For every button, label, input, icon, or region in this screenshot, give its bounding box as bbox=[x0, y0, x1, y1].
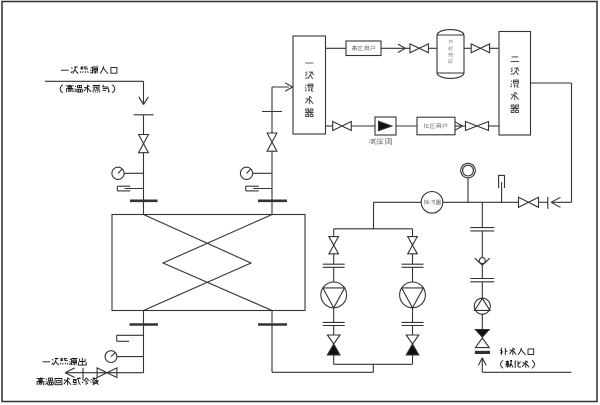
valve V1: primary inlet shut-off valve bbox=[139, 135, 149, 144]
pipe: primary outlet drop bbox=[143, 311, 145, 373]
heat exchanger HX secondary-pass diagonal bbox=[163, 215, 272, 311]
pipe: discharge header jog down bbox=[372, 364, 374, 372]
flange: heat exchanger primary inlet nozzle bbox=[130, 200, 158, 203]
pipe: PRV to low-zone users bbox=[396, 125, 417, 127]
label: 二级混水器 vertical text bbox=[511, 57, 520, 113]
label: （高温水蒸气） (high-temperature steam) bbox=[60, 85, 115, 93]
valve V7: low-zone return valve bbox=[466, 122, 478, 131]
pipe: primary inlet drop with flow arrow bbox=[143, 81, 145, 104]
ball check valve BC1 bbox=[475, 258, 483, 265]
pipe: drop to pump P2 inlet valve bbox=[412, 229, 414, 237]
pipe: primary outlet horizontal run with flow arrow bbox=[66, 372, 144, 374]
valve V9: pump P1 suction valve bbox=[329, 237, 339, 246]
label: 一次热源入口 (primary heat source inlet) bbox=[61, 66, 117, 74]
pipe: secondary supply riser bbox=[271, 151, 273, 214]
flange pair: pump P2 discharge bbox=[402, 321, 424, 323]
pipe: pump P2 discharge bbox=[412, 308, 414, 323]
pipe: check valve to discharge header bbox=[412, 355, 414, 364]
pipe: pump P1 discharge bbox=[333, 308, 335, 323]
tick: battery-limit mark on outlet line bbox=[82, 368, 84, 379]
flange: heat exchanger secondary inlet nozzle bbox=[258, 323, 287, 326]
pipe: seat bar to valve V8 bbox=[539, 201, 548, 203]
flange: primary inlet bbox=[134, 114, 154, 116]
pipe: mixer2 outlet to right edge bbox=[531, 82, 572, 84]
pipe: right-side downcomer bbox=[571, 83, 573, 202]
pipe: inlet flange to valve V1 bbox=[143, 115, 145, 135]
block: 高区用户 (high zone users) bbox=[346, 41, 381, 56]
vent/breather pipe on suction main bbox=[499, 175, 505, 188]
check valve CV1 seat bar bbox=[547, 197, 549, 209]
thermometer pocket T3 bbox=[246, 185, 259, 187]
valve V10: pump P2 suction valve bbox=[408, 237, 418, 246]
pipe: valve V1 down to heat exchanger bbox=[143, 153, 145, 215]
pump P3: make-up water pump bbox=[474, 298, 490, 314]
valve V8: suction main valve bbox=[519, 197, 529, 207]
flange pair: pump P1 discharge bbox=[323, 321, 345, 323]
pipe: mixer1 to valve V6 bbox=[326, 125, 333, 127]
label: 减压阀 (pressure reducing valve) bbox=[369, 138, 391, 145]
heat exchanger HX body bbox=[112, 215, 305, 311]
flange pair: make-up lower bbox=[470, 278, 494, 280]
vessel U3: 二级混水器 (second-stage mixing vessel) bbox=[499, 32, 531, 136]
pipe: primary inlet horizontal run bbox=[45, 80, 144, 82]
pipe: valve V8 to strainer bbox=[443, 201, 519, 203]
pipe: valve V9 to suction flange bbox=[333, 254, 335, 264]
pipe: heat exchanger secondary return riser bbox=[271, 311, 273, 373]
valve V5: surge vessel outlet valve bbox=[471, 44, 480, 53]
pump P2: circulating pump bbox=[400, 282, 426, 308]
pipe: make-up branch from suction main bbox=[481, 202, 483, 227]
pipe: valve V5 into mixer2 bbox=[490, 47, 499, 49]
valve V4: pressure vessel inlet valve bbox=[410, 44, 419, 53]
pipe: strainer to pump header corner bbox=[374, 201, 422, 203]
flange pair: make-up upper bbox=[470, 227, 494, 229]
thermometer pocket T2 bbox=[117, 334, 144, 336]
check valve CV3: pump P2 discharge check bbox=[406, 335, 419, 344]
check valve CV2: pump P1 discharge check bbox=[327, 335, 340, 344]
pipe: suction main with flow arrow bbox=[552, 201, 572, 203]
pipe: return run to heat exchanger secondary inlet bbox=[272, 371, 373, 373]
label: 一级混水器 vertical text bbox=[305, 63, 314, 117]
flange: heat exchanger secondary outlet nozzle bbox=[258, 200, 287, 203]
pipe: pump discharge header bbox=[334, 363, 413, 365]
pipe: make-up inlet with up arrow bbox=[481, 358, 483, 372]
pipe: make-up pump outlet bbox=[481, 314, 483, 329]
pipe: valve V10 to suction flange bbox=[412, 254, 414, 264]
label: 一次热源出 (primary heat source out) bbox=[43, 358, 87, 366]
valve V6: reducing line inlet valve bbox=[333, 122, 342, 131]
pressure gauge PG2 bbox=[105, 351, 117, 363]
pipe: drop to pump P1 inlet valve bbox=[333, 229, 335, 237]
pipe: users to valve V7 with flow arrow bbox=[455, 125, 466, 127]
pipe: high-zone users to valve V4 with flow arrow bbox=[381, 47, 410, 49]
pump P1: circulating pump bbox=[321, 282, 347, 308]
label: 节能稳压器 tiny vertical text in surge tank bbox=[448, 40, 453, 64]
pipe: valve V6 to pressure reducing valve bbox=[351, 125, 375, 127]
heat exchanger HX primary-pass diagonal bbox=[144, 215, 252, 311]
pressure gauge PG1 bbox=[112, 167, 124, 179]
pressure gauge PG4 (double ring) on suction main bbox=[461, 163, 476, 178]
flange: heat exchanger primary outlet nozzle bbox=[130, 323, 159, 326]
strainer U4: 除污器 (dirt separator) bbox=[421, 192, 443, 214]
pipe: make-up water supply run bbox=[482, 371, 571, 373]
pipe: surge vessel to valve V5 bbox=[464, 47, 471, 49]
thermometer pocket T1 bbox=[117, 185, 130, 187]
label: 高温回水或冷凝 (high-temp return water or condensate) bbox=[37, 377, 99, 385]
valve V3: secondary supply valve bbox=[267, 133, 277, 142]
pipe: riser top run into mixer with flow arrow bbox=[272, 86, 289, 88]
check valve CV4: make-up line check bbox=[475, 330, 489, 338]
pressure gauge PG3 bbox=[240, 167, 252, 179]
vessel U1: 一级混水器 (first-stage mixing vessel) bbox=[293, 36, 326, 134]
pipe: valve V7 into mixer2 bbox=[489, 125, 500, 127]
block: 低区用户 (low zone users) bbox=[417, 117, 455, 135]
flange pair: pump P1 suction bbox=[323, 263, 345, 265]
flange: secondary riser bbox=[262, 111, 282, 113]
blind/seat bar on make-up inlet bbox=[475, 351, 490, 354]
pipe: check valve to discharge header bbox=[333, 355, 335, 364]
flange pair: pump P2 suction bbox=[402, 263, 424, 265]
pipe: valve V4 to surge vessel bbox=[428, 47, 437, 49]
label: （软化水） (softened water) bbox=[501, 360, 535, 368]
label: 补水入口 (make-up water inlet) bbox=[500, 348, 534, 355]
pressure reducing valve PRV (boxed) bbox=[375, 117, 396, 135]
pipe: mixer1 to high-zone users bbox=[326, 47, 347, 49]
vessel U2: surge/stabilizer tank bbox=[436, 35, 438, 73]
valve V2: primary outlet valve bbox=[97, 368, 107, 378]
pipe: pump suction header bbox=[373, 202, 375, 229]
